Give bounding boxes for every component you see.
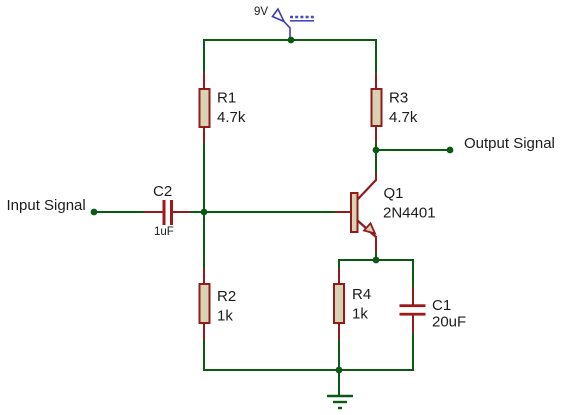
svg-text:Output Signal: Output Signal <box>464 135 555 152</box>
svg-text:2N4401: 2N4401 <box>383 205 436 222</box>
wire right vertical (R3/collector branch) <box>375 39 377 180</box>
wire bottom rail <box>203 369 414 371</box>
ground <box>327 396 353 408</box>
wire emitter vertical <box>375 242 377 261</box>
capacitor C2 <box>144 200 190 225</box>
svg-text:R3: R3 <box>389 90 408 107</box>
node emitter junction <box>373 257 380 264</box>
wire C1 vertical <box>412 259 414 305</box>
label R1 value <box>217 90 246 127</box>
svg-text:Input Signal: Input Signal <box>7 197 86 214</box>
wire R4 vertical <box>338 259 340 371</box>
power flag 9V <box>273 9 291 39</box>
wire top rail <box>203 39 377 41</box>
wire output <box>376 149 450 151</box>
capacitor C1 <box>400 287 426 333</box>
svg-text:1k: 1k <box>217 308 233 325</box>
node power tap junction <box>288 37 295 44</box>
svg-text:C1: C1 <box>432 297 451 314</box>
power net dashes <box>290 17 314 21</box>
wire left vertical (R1/R2 branch) <box>203 39 205 371</box>
label Q1 value <box>383 185 436 222</box>
svg-text:Q1: Q1 <box>384 185 404 202</box>
wire input/base horizontal <box>94 211 164 213</box>
svg-text:1k: 1k <box>352 306 368 323</box>
svg-text:R1: R1 <box>217 90 236 107</box>
label R2 value <box>217 288 236 325</box>
svg-text:9V: 9V <box>254 6 268 18</box>
node base junction <box>201 209 208 216</box>
svg-text:4.7k: 4.7k <box>389 109 418 126</box>
wire emitter rail <box>338 259 414 261</box>
resistor R1 <box>200 73 210 143</box>
svg-text:R4: R4 <box>352 286 371 303</box>
node output junction <box>373 147 380 154</box>
wire ground stub <box>338 370 340 395</box>
node output terminal <box>447 147 454 154</box>
label C2 value <box>153 183 174 238</box>
node ground junction <box>336 367 343 374</box>
resistor R4 <box>334 268 344 340</box>
svg-text:R2: R2 <box>217 288 236 305</box>
label R4 value <box>352 286 371 323</box>
label C1 value <box>432 297 466 331</box>
transistor Q1 <box>335 173 376 252</box>
resistor R2 <box>200 268 210 340</box>
label R3 value <box>389 90 418 127</box>
svg-text:4.7k: 4.7k <box>217 109 246 126</box>
svg-text:20uF: 20uF <box>432 314 466 331</box>
node input terminal <box>91 209 98 216</box>
resistor R3 <box>372 73 382 142</box>
svg-text:C2: C2 <box>153 183 172 200</box>
svg-text:1uF: 1uF <box>154 226 174 238</box>
